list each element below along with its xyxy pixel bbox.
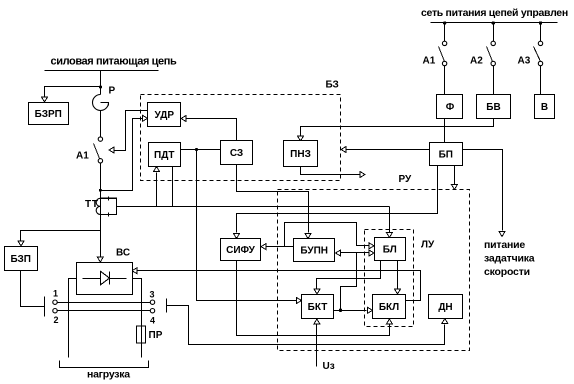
svg-text:нагрузка: нагрузка — [87, 369, 130, 381]
svg-text:ТТ: ТТ — [85, 199, 99, 210]
svg-text:питание: питание — [484, 239, 525, 251]
svg-text:4: 4 — [150, 316, 155, 326]
svg-text:В: В — [541, 102, 548, 113]
svg-text:задатчика: задатчика — [484, 253, 535, 265]
svg-text:СИФУ: СИФУ — [226, 245, 256, 256]
svg-text:А3: А3 — [518, 56, 531, 67]
svg-text:силовая питающая цепь: силовая питающая цепь — [51, 56, 177, 68]
svg-text:Ф: Ф — [446, 102, 455, 113]
svg-text:ПДТ: ПДТ — [154, 150, 174, 161]
svg-text:ПНЗ: ПНЗ — [290, 149, 311, 160]
svg-text:ДН: ДН — [438, 302, 452, 313]
svg-text:3: 3 — [149, 290, 154, 300]
svg-text:сеть питания цепей управлен: сеть питания цепей управлен — [421, 7, 568, 19]
svg-text:УДР: УДР — [154, 110, 174, 121]
svg-text:БЛ: БЛ — [383, 245, 397, 256]
svg-text:СЗ: СЗ — [230, 148, 243, 159]
svg-text:1: 1 — [53, 289, 58, 299]
svg-text:БВ: БВ — [486, 102, 500, 113]
svg-text:ВС: ВС — [116, 248, 130, 259]
svg-text:А2: А2 — [470, 56, 483, 67]
svg-text:А1: А1 — [76, 151, 89, 162]
svg-text:Uз: Uз — [323, 361, 335, 372]
svg-text:РУ: РУ — [399, 174, 413, 185]
svg-text:ПР: ПР — [149, 330, 163, 341]
svg-text:БП: БП — [439, 150, 453, 161]
svg-text:БЗ: БЗ — [326, 80, 339, 91]
svg-text:А1: А1 — [423, 56, 436, 67]
svg-text:БУПН: БУПН — [300, 246, 328, 257]
svg-text:БЗП: БЗП — [10, 254, 31, 265]
svg-text:БКТ: БКТ — [308, 302, 328, 313]
svg-text:2: 2 — [53, 315, 58, 325]
svg-text:ЛУ: ЛУ — [421, 240, 435, 251]
svg-text:БЗРП: БЗРП — [35, 109, 62, 120]
svg-text:БКЛ: БКЛ — [379, 302, 399, 313]
svg-text:скорости: скорости — [484, 266, 530, 278]
svg-text:Р: Р — [109, 86, 116, 97]
